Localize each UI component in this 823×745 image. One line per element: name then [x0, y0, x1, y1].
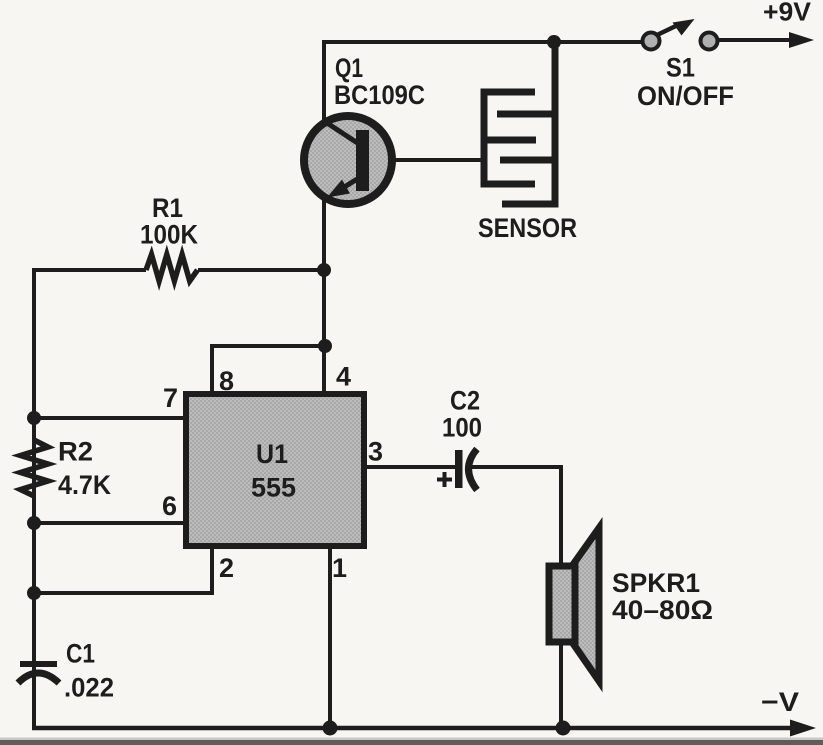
svg-text:SPKR1: SPKR1 — [612, 568, 700, 598]
svg-text:−V: −V — [761, 687, 799, 717]
svg-text:3: 3 — [368, 437, 383, 467]
svg-text:4: 4 — [336, 362, 351, 392]
svg-text:Q1: Q1 — [335, 53, 363, 83]
svg-text:.022: .022 — [64, 673, 114, 703]
svg-text:SENSOR: SENSOR — [478, 213, 577, 243]
svg-text:R2: R2 — [58, 437, 93, 467]
svg-text:1: 1 — [332, 553, 347, 583]
svg-text:ON/OFF: ON/OFF — [637, 81, 734, 111]
svg-text:+9V: +9V — [763, 0, 812, 27]
svg-text:8: 8 — [219, 366, 234, 396]
svg-text:4.7K: 4.7K — [58, 470, 111, 500]
svg-text:100K: 100K — [140, 220, 198, 250]
svg-text:6: 6 — [162, 491, 177, 521]
svg-text:R1: R1 — [152, 193, 183, 223]
svg-text:40–80Ω: 40–80Ω — [612, 595, 713, 625]
svg-text:2: 2 — [219, 553, 234, 583]
svg-text:BC109C: BC109C — [334, 80, 425, 110]
svg-text:C2: C2 — [450, 386, 480, 416]
svg-text:U1: U1 — [256, 439, 288, 469]
svg-text:100: 100 — [442, 413, 482, 443]
svg-text:7: 7 — [163, 383, 178, 413]
svg-text:S1: S1 — [666, 53, 695, 83]
svg-text:C1: C1 — [66, 639, 95, 669]
svg-text:555: 555 — [251, 473, 296, 503]
